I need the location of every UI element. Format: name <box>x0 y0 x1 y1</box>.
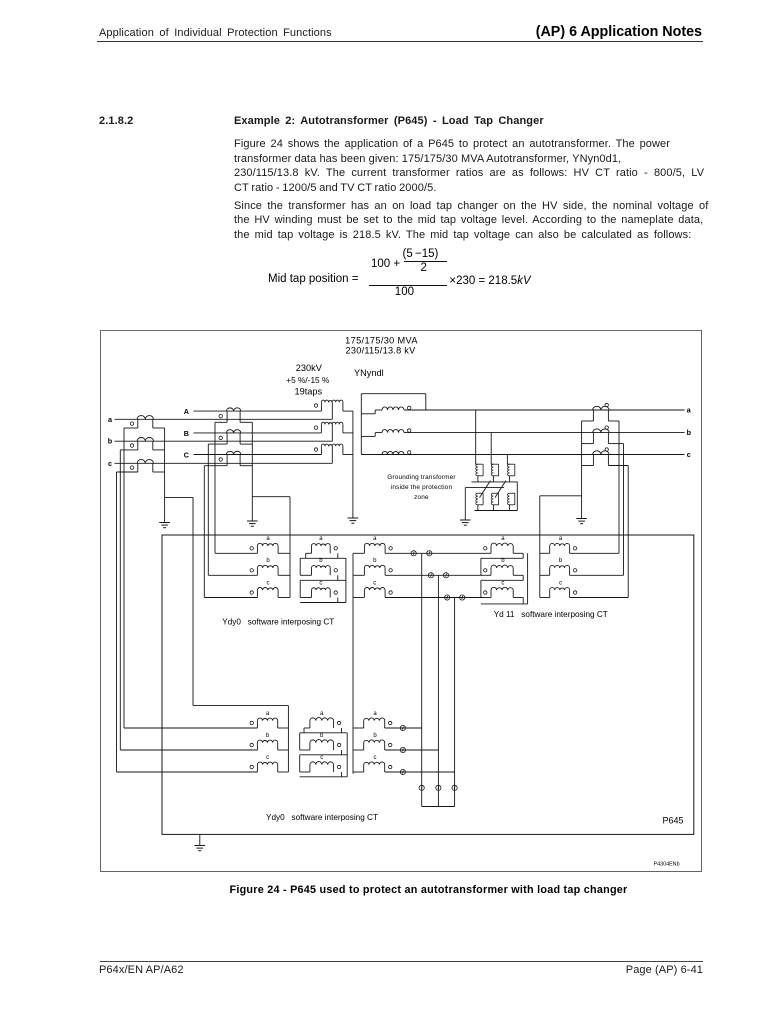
bottom Ydy0 delta coil c <box>309 765 311 772</box>
svg-text:a: a <box>559 536 563 542</box>
ground G3 HV neutral <box>348 517 359 519</box>
wire rct-b drop <box>623 444 625 576</box>
HV measuring coil b <box>353 574 364 576</box>
main fraction bar <box>369 285 447 286</box>
CT LV phase a <box>137 416 153 420</box>
wire bus290 drop <box>289 497 291 598</box>
svg-text:b: b <box>559 558 563 564</box>
wire bus539 drop <box>539 496 541 598</box>
wire earth tee 539 <box>540 495 582 497</box>
ground G4 zigzag <box>460 519 471 521</box>
svg-text:inside the protection: inside the protection <box>391 484 453 491</box>
CT TV phase c <box>593 451 609 455</box>
wire phase b right <box>404 432 685 434</box>
zigzag upper coil 2 <box>491 463 493 465</box>
interposing Ydy0 wye coil b <box>208 574 257 576</box>
wire phase a right <box>404 409 685 411</box>
svg-text:P4304ENb: P4304ENb <box>654 862 680 868</box>
svg-text:Yd 11 software interposing C: Yd 11 software interposing CT <box>494 610 608 619</box>
wire rct-c drop <box>627 466 629 598</box>
svg-text:a: a <box>687 406 692 415</box>
sub fraction (5-15) <box>403 248 439 260</box>
svg-text:c: c <box>501 580 504 586</box>
interposing Yd11 delta coil a <box>485 552 491 554</box>
sub fraction denominator 2 <box>421 262 427 274</box>
HV measuring coil a <box>353 552 364 554</box>
wire earth tee to bus290 <box>252 496 290 498</box>
wire CT-C secondary drop <box>203 466 205 598</box>
ground G2 <box>247 520 258 522</box>
TV line c with indicator <box>385 771 455 773</box>
interposing Ydy0 wye coil a <box>215 552 257 554</box>
bottom Ydy0 wye coil c <box>117 771 258 773</box>
svg-text:b: b <box>266 558 270 564</box>
zigzag mid link <box>472 481 518 483</box>
wire CT HV earth lead <box>251 422 253 521</box>
wire phase c left <box>115 462 333 464</box>
svg-text:230kV: 230kV <box>296 363 323 373</box>
zigzag lower coil 2 <box>493 492 498 494</box>
CT TV phase b <box>593 429 609 433</box>
fraction numerator: 100 + <box>371 258 400 270</box>
section number <box>99 114 133 128</box>
measuring line a with indicators <box>385 552 485 554</box>
wire bias tap b <box>437 575 439 806</box>
wire CT-a secondary drop <box>123 428 125 728</box>
Yd11 wye coil c <box>540 597 550 599</box>
svg-text:a: a <box>373 711 377 717</box>
interposing Yd11 delta coil c <box>485 597 491 599</box>
zigzag lower coil 3 <box>510 492 515 494</box>
header right title <box>536 24 702 40</box>
indicator bias c <box>452 785 457 790</box>
HV winding phase A with tap <box>320 402 322 411</box>
ground G6 case <box>195 845 206 847</box>
wire gt feed b <box>490 433 492 465</box>
wire earth tee to relay <box>165 496 193 498</box>
svg-text:b: b <box>373 558 377 564</box>
Yd11 wye coil a <box>540 552 550 554</box>
svg-text:Ydy0 software interposing CT: Ydy0 software interposing CT <box>266 813 378 822</box>
LV winding phase b <box>382 430 404 433</box>
LV winding phase c <box>382 451 404 454</box>
svg-text:c: c <box>108 459 112 468</box>
measuring line b with indicators <box>385 574 485 576</box>
wire bus288 <box>287 706 289 772</box>
svg-text:230/115/13.8 kV: 230/115/13.8 kV <box>346 345 417 355</box>
svg-text:B: B <box>184 429 189 438</box>
paragraph 2 <box>234 199 708 213</box>
svg-text:c: c <box>373 580 376 586</box>
wire gt feed c <box>506 455 508 465</box>
svg-text:a: a <box>108 415 113 424</box>
svg-text:a: a <box>320 711 324 717</box>
TV measuring coil a <box>353 727 364 729</box>
svg-text:a: a <box>266 536 270 542</box>
footer right <box>626 963 703 977</box>
zigzag earth arm <box>465 487 504 489</box>
formula tail <box>449 275 530 287</box>
CT LV phase c <box>137 460 153 464</box>
wire drop x193 <box>192 497 194 705</box>
wire rct-a drop <box>618 421 620 553</box>
section heading <box>234 114 544 128</box>
ground G5 <box>576 518 587 520</box>
Yd11 wye coil b <box>540 574 550 576</box>
header left title <box>99 26 332 40</box>
svg-text:b: b <box>373 733 377 739</box>
TV measuring coil c <box>353 771 364 773</box>
wire phase A <box>194 410 322 412</box>
wire CT common earth lead <box>164 428 166 523</box>
formula: mid tap position <box>268 273 358 285</box>
svg-text:+5 %/-15 %: +5 %/-15 % <box>286 375 330 385</box>
wire centre bus <box>352 553 354 773</box>
wire case earth <box>199 834 201 845</box>
svg-text:b: b <box>266 733 270 739</box>
svg-text:C: C <box>184 450 189 459</box>
interposing Ydy0 wye coil c <box>204 597 257 599</box>
svg-text:b: b <box>108 437 113 446</box>
LV winding frame <box>360 394 362 455</box>
zigzag upper coil 1 <box>476 463 478 465</box>
wire bus288 top <box>193 705 288 707</box>
svg-text:c: c <box>319 580 322 586</box>
svg-text:c: c <box>267 580 270 586</box>
bottom Ydy0 wye coil a <box>124 727 257 729</box>
indicator bias a <box>419 785 424 790</box>
wire bias bottom bus <box>422 806 455 808</box>
bottom Ydy0 delta coil b <box>309 743 311 750</box>
svg-text:175/175/30 MVA: 175/175/30 MVA <box>345 336 418 346</box>
wire bias tap a <box>421 553 423 806</box>
wire HV neutral bus <box>352 411 354 518</box>
svg-text:Grounding transformer: Grounding transformer <box>387 474 456 481</box>
HV winding phase C with tap <box>320 446 322 454</box>
measuring line c with indicators <box>385 597 485 599</box>
svg-text:19taps: 19taps <box>295 387 323 397</box>
svg-text:b: b <box>501 558 505 564</box>
svg-text:zone: zone <box>414 494 429 501</box>
ground G1 <box>159 522 170 524</box>
CT HV phase C <box>226 451 240 454</box>
footer rule <box>100 961 703 962</box>
zigzag right limb <box>516 482 518 511</box>
wire phase B <box>194 432 322 434</box>
zigzag lower coil 1 <box>478 492 483 494</box>
svg-text:c: c <box>320 755 323 761</box>
svg-text:c: c <box>266 755 269 761</box>
zigzag upper coil 3 <box>507 463 509 465</box>
CT LV phase b <box>137 438 153 442</box>
svg-text:a: a <box>319 536 323 542</box>
wire CT-A secondary drop <box>214 422 216 553</box>
wire CT-B secondary drop <box>207 444 209 575</box>
svg-text:b: b <box>687 428 692 437</box>
TV measuring coil b <box>353 749 364 751</box>
svg-text:b: b <box>319 558 323 564</box>
bottom Ydy0 delta coil a <box>309 721 311 728</box>
zigzag diagonal 2 <box>495 481 506 498</box>
header rule <box>97 41 703 42</box>
wire CT-c secondary drop <box>116 472 118 772</box>
bottom Ydy0 delta links <box>304 727 310 729</box>
svg-text:Ydy0 software interposing CT: Ydy0 software interposing CT <box>222 618 334 627</box>
LV winding phase a <box>382 407 404 410</box>
wire bias tap c <box>454 598 456 807</box>
svg-text:P645: P645 <box>663 816 684 826</box>
svg-text:A: A <box>184 407 189 416</box>
Yd11 delta links <box>513 552 523 554</box>
HV winding phase B with tap <box>320 424 322 433</box>
wire phase C <box>194 454 322 456</box>
indicator bias b <box>436 785 441 790</box>
wire right CT earth lead <box>581 421 583 519</box>
figure caption <box>129 884 729 896</box>
bottom Ydy0 wye coil b <box>120 749 257 751</box>
interposing Yd11 delta coil b <box>485 574 491 576</box>
TV line b with indicator <box>385 749 439 751</box>
svg-text:YNyndl: YNyndl <box>354 368 384 378</box>
paragraph 1 <box>234 137 670 151</box>
main denominator 100 <box>395 286 414 298</box>
svg-text:c: c <box>374 755 377 761</box>
CT TV phase a <box>593 406 609 410</box>
svg-text:a: a <box>266 711 270 717</box>
CT HV phase B <box>226 430 240 433</box>
footer left <box>99 963 184 977</box>
P645 relay boundary box <box>162 535 694 834</box>
wire CT-b secondary drop <box>119 450 121 750</box>
Ydy0 delta links <box>306 552 312 554</box>
zigzag bottom bus <box>475 510 518 512</box>
interposing Ydy0 delta coil b <box>311 568 313 575</box>
svg-text:c: c <box>559 580 562 586</box>
TV line a with indicator <box>385 727 422 729</box>
sub fraction bar <box>404 261 448 262</box>
wire gt feed a <box>475 410 477 464</box>
HV measuring coil c <box>353 597 364 599</box>
svg-text:a: a <box>501 536 505 542</box>
wire phase c right <box>361 454 684 456</box>
CT HV phase A <box>226 408 240 411</box>
interposing Ydy0 delta coil c <box>311 590 313 597</box>
wire phase b left <box>115 440 333 442</box>
interposing Ydy0 delta coil a <box>311 546 313 553</box>
figure outer border box <box>101 331 702 872</box>
svg-text:c: c <box>687 450 691 459</box>
svg-text:a: a <box>373 536 377 542</box>
zigzag diagonal 1 <box>480 481 491 498</box>
svg-text:b: b <box>320 733 324 739</box>
wire phase a left <box>115 418 333 420</box>
